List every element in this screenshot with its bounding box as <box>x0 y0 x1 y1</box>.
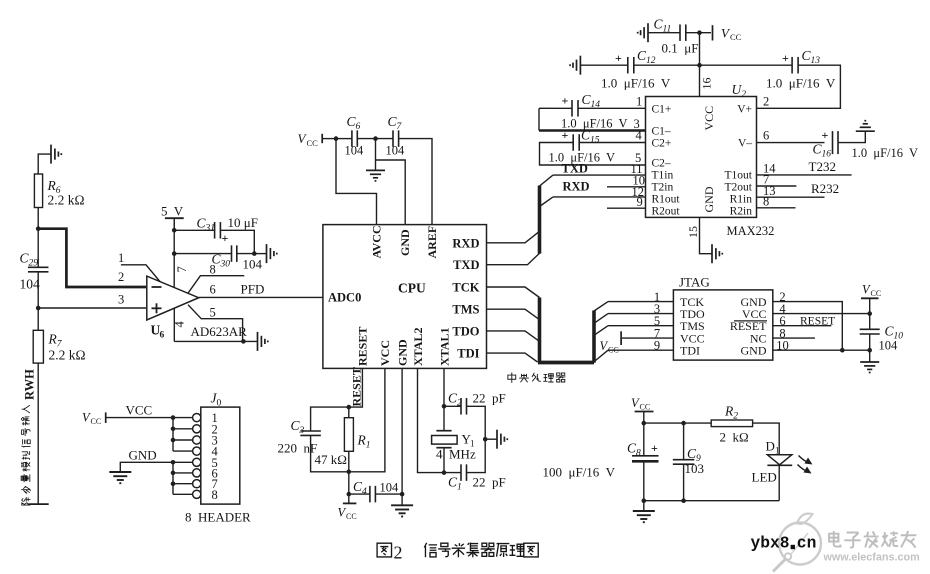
svg-text:R232: R232 <box>811 181 839 196</box>
svg-text:103: 103 <box>685 461 705 476</box>
wire XTAL1 down <box>443 368 445 430</box>
svg-text:+: + <box>782 51 789 65</box>
ground (C12 left) <box>570 56 580 75</box>
overline on RESET <box>734 320 767 322</box>
J0 pin 5 circle <box>193 458 201 466</box>
svg-text:104: 104 <box>380 481 400 495</box>
svg-text:T2in: T2in <box>652 182 674 194</box>
capacitor C16 (1.0 uF/16V) <box>832 131 834 154</box>
resistor R7 <box>37 308 39 330</box>
svg-text:AVCC: AVCC <box>369 225 383 258</box>
svg-text:TDI: TDI <box>680 344 700 358</box>
resistor R6 <box>34 174 42 208</box>
svg-text:6: 6 <box>210 283 216 297</box>
svg-text:CC: CC <box>608 346 619 355</box>
capacitor C6 <box>336 138 352 140</box>
svg-text:1.0 μF/16 V: 1.0 μF/16 V <box>766 76 836 91</box>
svg-text:104: 104 <box>345 144 365 158</box>
svg-text:RXD: RXD <box>452 236 479 250</box>
svg-text:104: 104 <box>20 277 41 292</box>
node B (C29 / R7 / pin3 junction) <box>36 306 41 311</box>
ground (MAX232 pin15) <box>712 244 722 263</box>
ground (C11 left) <box>638 23 648 42</box>
watermark magnifier glass <box>779 523 821 565</box>
svg-text:0.1 μF: 0.1 μF <box>662 41 699 56</box>
svg-text:R2in: R2in <box>730 206 753 218</box>
svg-text:D: D <box>766 439 775 454</box>
wire (node A to op-amp pin 2, thick) <box>38 229 146 287</box>
J0 pin 4 circle <box>193 447 201 455</box>
svg-text:CC: CC <box>640 403 651 412</box>
svg-text:cn: cn <box>797 534 817 553</box>
JTAG pin8 wire (NC) <box>773 337 815 339</box>
svg-text:+: + <box>615 51 622 65</box>
ground (bottom right) <box>633 511 655 522</box>
svg-text:RWH: RWH <box>23 369 37 400</box>
serial bus bundle (thick) <box>538 186 542 254</box>
svg-text:RESET: RESET <box>350 367 364 406</box>
svg-text:47 kΩ: 47 kΩ <box>315 452 347 467</box>
svg-text:104: 104 <box>386 144 406 158</box>
svg-text:C1+: C1+ <box>652 104 672 116</box>
svg-text:2: 2 <box>394 543 403 563</box>
wire (CPU GND pin down) <box>401 368 403 505</box>
node (VCC / C8 / R2 wire) <box>642 421 647 426</box>
svg-text:2.2 kΩ: 2.2 kΩ <box>49 348 86 363</box>
svg-text:MAX232: MAX232 <box>727 224 775 238</box>
bottom rail wire <box>644 500 779 502</box>
op-amp pin 4 (V-) <box>173 308 175 342</box>
node (VCC / C6) <box>334 136 339 141</box>
op-amp pin 6 output wire (PFD net to CPU ADC0) <box>199 296 323 298</box>
svg-text:GND: GND <box>702 186 716 212</box>
J0 pin 3 circle <box>193 436 201 444</box>
svg-text:GND: GND <box>395 339 409 366</box>
node (R1 bottom) <box>347 470 352 475</box>
svg-text:220 nF: 220 nF <box>278 441 318 456</box>
svg-text:T232: T232 <box>809 159 836 174</box>
svg-text:V+: V+ <box>737 104 752 116</box>
svg-text:7: 7 <box>175 266 189 272</box>
svg-text:6: 6 <box>763 129 769 143</box>
svg-text:VCC: VCC <box>378 340 392 366</box>
svg-text:104: 104 <box>879 339 899 353</box>
J0 GND bus <box>172 462 174 494</box>
svg-text:5 V: 5 V <box>161 204 184 219</box>
ground (CPU top) <box>366 170 385 181</box>
resistor R1 (47 kOhm) <box>348 407 350 418</box>
svg-text:TXD: TXD <box>562 162 588 176</box>
svg-text:5: 5 <box>210 306 216 320</box>
capacitor C13 (1.0 uF/16V) <box>700 64 793 66</box>
wire (CPU VCC pin down to R1 bottom) <box>349 368 385 471</box>
svg-text:2.2 kΩ: 2.2 kΩ <box>48 193 85 208</box>
svg-text:GND: GND <box>741 344 767 358</box>
wire R2 to D1 <box>753 423 780 455</box>
capacitor C2 (22 pF) <box>444 405 461 407</box>
J0 pin 6 circle <box>193 469 201 477</box>
capacitor C31 (10 uF) <box>172 228 177 233</box>
svg-text:TDI: TDI <box>457 347 479 361</box>
JTAG bus bundle (thick) <box>538 298 542 363</box>
wire (CPU GND pin up to ground stem) <box>376 160 406 225</box>
wire (C13 to V+ pin 2) <box>757 65 841 108</box>
wires (bundle to JTAG rows) <box>594 302 608 311</box>
svg-text:4: 4 <box>636 129 643 143</box>
wire TXD (CPU to bundle) <box>487 253 540 265</box>
wire (VCC L-route to AVCC pin) <box>336 139 377 225</box>
svg-text:LED: LED <box>752 470 777 485</box>
svg-text:CC: CC <box>307 138 319 148</box>
svg-text:C2–: C2– <box>652 158 671 170</box>
wire (C7 to AREF pin) <box>399 139 432 225</box>
svg-text:VCC: VCC <box>702 106 716 131</box>
wire T2out stub <box>757 185 797 187</box>
capacitor C8 (100 uF/16V, polarized) <box>643 423 645 456</box>
J0 pin 2 circle <box>193 425 201 433</box>
ground (C10) <box>860 362 879 373</box>
svg-text:+: + <box>562 94 569 108</box>
op-amp U6 (AD623AR) <box>147 276 199 320</box>
J0 pin 1 circle <box>193 414 201 422</box>
wire TCK <box>487 287 540 298</box>
JTAG pin6 wire (RESET) <box>773 325 832 327</box>
svg-text:C1–: C1– <box>652 126 671 138</box>
svg-text:TXD: TXD <box>453 258 479 272</box>
wire TMS <box>487 309 540 320</box>
svg-text:CC: CC <box>346 512 357 521</box>
ground (C30) <box>267 244 277 263</box>
CPU U3 block <box>323 225 487 369</box>
VCC pin16 wire <box>699 33 701 97</box>
svg-text:22 pF: 22 pF <box>473 391 506 406</box>
wire R2out stub <box>607 207 646 209</box>
node A (R6 / C29 junction) <box>36 226 41 231</box>
svg-text:0: 0 <box>217 399 222 409</box>
ground (below C4) <box>391 505 413 516</box>
diode D1 LED <box>767 455 791 465</box>
ground (J0) <box>109 472 131 483</box>
node (C6 / C7 / gnd) <box>373 136 378 141</box>
node (XTAL1 / C2 / Y1) <box>442 404 447 409</box>
svg-text:R1out: R1out <box>652 194 681 206</box>
svg-text:100 μF/16 V: 100 μF/16 V <box>543 465 616 480</box>
ground (crystal) <box>497 430 507 449</box>
svg-text:3: 3 <box>118 293 124 307</box>
wire T2in stub <box>607 186 646 188</box>
svg-text:15: 15 <box>686 226 700 238</box>
svg-text:T1in: T1in <box>652 170 674 182</box>
svg-text:T2out: T2out <box>725 182 753 194</box>
wire RXD (CPU to bundle) <box>487 231 540 243</box>
wire (pin4 to ground) + node <box>174 340 257 342</box>
svg-text:VCC: VCC <box>126 403 153 418</box>
svg-text:GND: GND <box>129 448 157 463</box>
watermark elecfans logo <box>829 531 840 547</box>
svg-text:AD623AR: AD623AR <box>191 324 248 339</box>
VCC supply terminal (below R1) <box>348 494 350 503</box>
J0 connector box <box>201 407 240 504</box>
MAX232 U2 box <box>646 97 757 218</box>
crystal Y1 (4 MHz) <box>436 430 451 432</box>
wire TDO <box>487 331 540 342</box>
capacitor C14 (1.0 uF/16V) with pin1/pin3 loop <box>553 107 572 109</box>
svg-text:R2out: R2out <box>652 206 681 218</box>
svg-text:V–: V– <box>738 138 752 150</box>
capacitor C30 (104) <box>172 251 177 256</box>
svg-text:GND: GND <box>398 229 412 256</box>
op-amp pin 7 (V+) <box>173 218 175 287</box>
svg-text:8 HEADER: 8 HEADER <box>185 510 251 525</box>
JTAG pin10 wire (GND) <box>773 349 870 351</box>
svg-text:4: 4 <box>173 321 187 328</box>
svg-text:2: 2 <box>118 270 124 284</box>
wire top rail <box>644 422 711 424</box>
svg-text:RESET: RESET <box>356 327 370 366</box>
capacitor C3 (220 nF) <box>311 407 349 431</box>
svg-text:22 pF: 22 pF <box>473 475 506 490</box>
node (C4 / GND) <box>400 492 405 497</box>
svg-text:1: 1 <box>775 446 780 456</box>
svg-text:CC: CC <box>91 417 102 426</box>
svg-text:C2+: C2+ <box>652 138 672 150</box>
svg-text:16: 16 <box>700 78 714 90</box>
svg-text:8: 8 <box>763 195 769 209</box>
svg-text:1.0 μF/16 V: 1.0 μF/16 V <box>852 146 919 160</box>
JTAG pin2 wire to pin10 <box>773 302 843 351</box>
svg-text:TMS: TMS <box>452 303 479 317</box>
J0 pin 7 circle <box>193 480 201 488</box>
capacitor C4 (104) <box>349 493 370 495</box>
svg-text:XTAL1: XTAL1 <box>437 328 451 366</box>
svg-text:AREF: AREF <box>425 226 439 259</box>
capacitor C15 (1.0 uF/16V) with pin4/pin5 loop <box>579 142 645 144</box>
capacitor C10 (104) <box>860 328 880 330</box>
svg-text:4 MHz: 4 MHz <box>436 447 476 462</box>
wire (node to ground) <box>375 139 377 171</box>
wire (node B to op-amp pin 3) <box>38 307 146 309</box>
svg-text:RXD: RXD <box>563 180 590 194</box>
capacitor C9 (103) <box>683 423 685 460</box>
capacitor C12 (1.0 uF/16V) <box>580 64 627 66</box>
caption: figure 2 signal collector schematic <box>377 543 391 557</box>
svg-text:+: + <box>222 231 229 245</box>
JTAG left row wires <box>608 301 673 303</box>
svg-text:XTAL2: XTAL2 <box>411 328 425 366</box>
wire TDI <box>487 353 538 362</box>
svg-text:www.elecfans.com: www.elecfans.com <box>823 552 920 564</box>
wire R1in (R232) <box>757 196 825 198</box>
svg-text:+: + <box>822 128 829 142</box>
op-amp pin 8 (stub) <box>188 276 244 294</box>
node (C1/C2 ground tap) <box>483 437 488 442</box>
RESET net wire <box>349 368 363 407</box>
svg-text:1: 1 <box>636 95 642 109</box>
LED arrows <box>799 456 809 463</box>
J0 VCC bus <box>172 418 174 452</box>
svg-text:2: 2 <box>763 95 769 109</box>
capacitor C1 (22 pF) <box>444 472 461 474</box>
svg-text:CC: CC <box>871 289 882 298</box>
wire XTAL2 down and across <box>418 368 445 472</box>
svg-text:CC: CC <box>730 32 742 42</box>
wire (bundle to MAX232 T1in) <box>540 175 554 186</box>
svg-text:TDO: TDO <box>452 324 479 338</box>
svg-text:1.0 μF/16 V: 1.0 μF/16 V <box>601 76 671 91</box>
wire R2in stub <box>757 207 796 209</box>
node (RESET / R1 / C3) <box>347 405 352 410</box>
svg-text:+: + <box>651 441 658 455</box>
resistor R2 (2 kOhm) <box>711 420 752 427</box>
svg-text:CPU: CPU <box>398 281 426 296</box>
input terminal RWH (bottom bar) <box>28 503 49 505</box>
node (C4 left / VCC bar) <box>347 492 352 497</box>
wire R1out (RXD) <box>553 196 646 198</box>
svg-text:8: 8 <box>212 488 218 502</box>
wire T1out (T232) <box>757 174 852 176</box>
svg-text:+: + <box>562 128 569 142</box>
ground (top-left, at R6 top) <box>38 154 51 174</box>
label: central processor (zhongyang chuliqi) <box>508 372 516 382</box>
svg-text:RESET: RESET <box>800 316 835 328</box>
svg-text:PFD: PFD <box>241 282 265 297</box>
svg-text:JTAG: JTAG <box>679 275 710 290</box>
op-amp pin 5 <box>188 305 243 342</box>
svg-text:ADC0: ADC0 <box>328 291 361 305</box>
svg-text:104: 104 <box>243 257 263 272</box>
node (Y1 bottom / C1) <box>442 470 447 475</box>
wire T1in (TXD) <box>553 174 646 176</box>
VCC supply terminal (C11) <box>712 25 714 40</box>
JTAG pin4 wire (VCC) <box>773 313 870 315</box>
GND pin15 wire <box>700 217 713 253</box>
J0 pin 8 circle <box>193 490 201 498</box>
svg-text:R1in: R1in <box>730 194 753 206</box>
svg-text:1: 1 <box>118 251 124 265</box>
capacitor C7 <box>376 138 394 140</box>
wire V- (pin 6) to C16 <box>757 142 825 144</box>
svg-text:TCK: TCK <box>452 281 479 295</box>
svg-text:10 μF: 10 μF <box>228 215 258 230</box>
capacitor C11 (0.1 uF) <box>648 32 680 34</box>
svg-text:6: 6 <box>160 331 165 341</box>
svg-text:ybx8: ybx8 <box>751 534 790 553</box>
svg-text:9: 9 <box>637 195 643 209</box>
VCC supply terminal (JTAG pin7) <box>622 337 673 339</box>
wire (bundle to MAX232 R1out) <box>540 197 554 207</box>
capacitor C29 <box>37 229 39 268</box>
ground (op-amp) <box>258 332 268 351</box>
svg-text:2 kΩ: 2 kΩ <box>720 430 749 445</box>
svg-text:T1out: T1out <box>725 170 753 182</box>
svg-text:1.0 μF/16 V: 1.0 μF/16 V <box>561 117 628 131</box>
ground (C16, pointing up) <box>856 121 875 132</box>
